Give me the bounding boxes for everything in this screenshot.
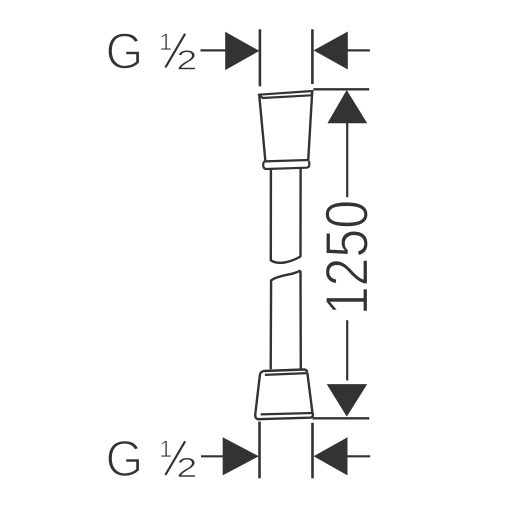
svg-text:2: 2 (176, 44, 197, 75)
hose bottom nut: bottom rim inner line (261, 413, 313, 414)
hose bottom nut: left side (255, 375, 260, 414)
svg-text:1: 1 (159, 30, 172, 56)
label G 1/2 bottom: fraction slash (165, 441, 185, 475)
hose top nut: right side (308, 92, 312, 161)
svg-text:1250: 1250 (313, 200, 381, 315)
hose lower tube: left edge (270, 280, 273, 369)
hose bottom nut: top shoulder outer contour (260, 369, 307, 375)
hose lower tube: wavy break edge (271, 271, 300, 280)
svg-text:2: 2 (176, 452, 197, 483)
wire: 1250 dimension line lower segment (346, 320, 348, 380)
bottom dimension arrow pointing right (223, 437, 259, 475)
wire: bottom dimension tail line right (347, 455, 370, 457)
wire: bottom leader dash from text (201, 455, 224, 457)
label G 1/2 top: fraction slash (165, 34, 185, 68)
svg-text:1: 1 (159, 437, 172, 463)
1250 dimension arrow pointing up (327, 90, 367, 123)
hose lower tube: right edge (299, 272, 302, 370)
hose upper tube: left edge (270, 169, 273, 260)
hose upper tube: right edge (299, 168, 302, 256)
bottom right extension line (311, 423, 314, 479)
1250 dimension arrow pointing down (327, 384, 368, 417)
wire: 1250 dimension line upper segment (346, 123, 348, 197)
svg-text:G: G (106, 23, 144, 80)
top dimension arrow pointing right (225, 32, 259, 70)
top right extension line (311, 29, 314, 84)
hose top nut: top face band (259, 91, 313, 98)
hose top nut: bottom rim top edge (265, 160, 309, 161)
bottom tick line of 1250 dimension (313, 417, 370, 419)
top left extension line (259, 29, 262, 86)
top dimension arrow pointing left (314, 32, 348, 70)
svg-text:G: G (106, 430, 144, 487)
bottom left extension line (258, 422, 261, 479)
wire: top dimension tail line right (347, 49, 370, 51)
hose bottom nut: right side (307, 372, 312, 412)
hose bottom nut: bottom rim outer contour (255, 412, 313, 419)
top tick line of 1250 dimension (313, 88, 369, 90)
hose top nut: bottom rim outer contour (263, 161, 309, 169)
hose bottom nut: top inner line (265, 373, 307, 375)
hose top nut: left side (259, 95, 265, 162)
hose upper tube: wavy break edge (271, 257, 301, 263)
bottom dimension arrow pointing left (314, 437, 348, 475)
wire: top leader dash from text (201, 49, 227, 51)
